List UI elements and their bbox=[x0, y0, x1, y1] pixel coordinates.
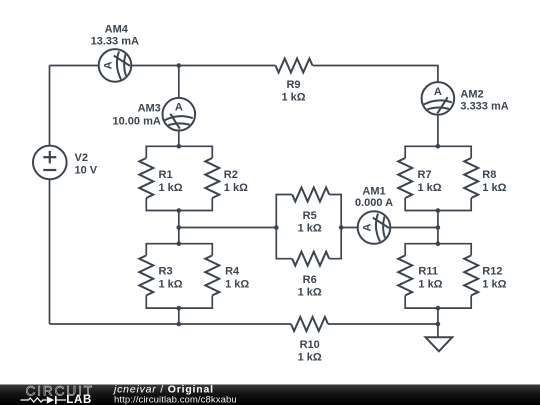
resistor R11 bbox=[398, 255, 412, 295]
resistor R7 bbox=[398, 158, 412, 198]
svg-text:1 kΩ: 1 kΩ bbox=[159, 182, 183, 194]
ammeter AM4 bbox=[99, 49, 132, 82]
svg-text:1 kΩ: 1 kΩ bbox=[298, 351, 322, 363]
wire R1R2 top rail bbox=[146, 146, 212, 158]
svg-text:R2: R2 bbox=[224, 169, 238, 181]
junction node bottom wire right bbox=[436, 322, 441, 327]
wire mid right to AM1 and right rail bbox=[341, 227, 438, 229]
svg-text:1 kΩ: 1 kΩ bbox=[482, 182, 506, 194]
junction node R5R6 left bbox=[274, 225, 279, 230]
svg-text:0.000 A: 0.000 A bbox=[355, 197, 393, 209]
svg-text:R11: R11 bbox=[418, 266, 438, 278]
resistor R10 bbox=[291, 317, 328, 331]
svg-text:R9: R9 bbox=[286, 79, 300, 91]
svg-text:A: A bbox=[175, 102, 183, 114]
wire R7R8 top rail bbox=[405, 146, 471, 158]
svg-text:AM4: AM4 bbox=[105, 23, 129, 35]
svg-text:R12: R12 bbox=[482, 266, 502, 278]
wire left link to bottom bbox=[178, 308, 180, 324]
wire top left segment bbox=[50, 65, 276, 67]
svg-text:10.00 mA: 10.00 mA bbox=[112, 116, 160, 128]
svg-text:13.33 mA: 13.33 mA bbox=[91, 36, 139, 48]
wire center link R1R2 to R3R4 bbox=[178, 211, 180, 244]
ground bbox=[426, 337, 453, 351]
junction node R7R8 top bbox=[436, 144, 441, 149]
svg-text:R5: R5 bbox=[303, 210, 317, 222]
junction node R3R4 bottom bbox=[177, 306, 182, 311]
svg-text:A: A bbox=[434, 86, 442, 98]
svg-text:AM1: AM1 bbox=[362, 185, 385, 197]
svg-text:R8: R8 bbox=[482, 169, 496, 181]
svg-text:V2: V2 bbox=[75, 152, 88, 164]
junction node mid wire right bbox=[436, 225, 441, 230]
wire R5R6 right edge bbox=[329, 195, 341, 259]
resistor R2 bbox=[205, 158, 219, 198]
wire top right segment bbox=[313, 66, 438, 147]
junction node mid wire left bbox=[177, 225, 182, 230]
junction node R1R2 top bbox=[177, 144, 182, 149]
wire AM3 branch bbox=[178, 66, 180, 147]
svg-text:R10: R10 bbox=[300, 339, 320, 351]
resistor R12 bbox=[464, 255, 478, 295]
resistor R8 bbox=[464, 158, 478, 198]
svg-text:AM2: AM2 bbox=[460, 89, 483, 101]
wire R3R4 bottom rail bbox=[146, 295, 212, 308]
svg-text:http://circuitlab.com/c8kxabu: http://circuitlab.com/c8kxabu bbox=[114, 394, 237, 405]
ammeter AM1 bbox=[358, 211, 391, 244]
wire right link R7R8 to R11R12 bbox=[437, 211, 439, 244]
wire R7R8 bottom rail bbox=[405, 198, 471, 211]
wire right link to ground bbox=[437, 308, 439, 337]
svg-text:AM3: AM3 bbox=[138, 102, 161, 114]
junction node R3R4 top bbox=[177, 241, 182, 246]
svg-text:1 kΩ: 1 kΩ bbox=[482, 279, 506, 291]
resistor R9 bbox=[276, 59, 313, 73]
svg-text:1 kΩ: 1 kΩ bbox=[225, 279, 249, 291]
svg-text:1 kΩ: 1 kΩ bbox=[281, 92, 305, 104]
wire R5R6 left edge bbox=[276, 195, 292, 259]
ammeter AM2 bbox=[422, 82, 455, 115]
junction node R1R2 bottom bbox=[177, 208, 182, 213]
svg-text:A: A bbox=[103, 61, 115, 69]
junction node R7R8 bottom bbox=[436, 208, 441, 213]
svg-text:1 kΩ: 1 kΩ bbox=[418, 279, 442, 291]
svg-text:R7: R7 bbox=[418, 169, 432, 181]
wire bottom right segment bbox=[328, 323, 438, 325]
svg-text:1 kΩ: 1 kΩ bbox=[418, 182, 442, 194]
wire R11R12 bottom rail bbox=[405, 295, 471, 308]
footer bar bbox=[0, 383, 540, 405]
svg-text:LAB: LAB bbox=[66, 394, 92, 405]
wire bottom left segment bbox=[50, 323, 292, 325]
wire left rail bbox=[49, 66, 51, 325]
svg-text:R3: R3 bbox=[159, 266, 173, 278]
svg-text:1 kΩ: 1 kΩ bbox=[298, 222, 322, 234]
wire R1R2 bottom rail bbox=[146, 198, 212, 211]
svg-text:1 kΩ: 1 kΩ bbox=[224, 182, 248, 194]
wire R3R4 top rail bbox=[146, 244, 212, 256]
resistor R5 bbox=[292, 188, 329, 202]
svg-text:A: A bbox=[362, 223, 374, 231]
svg-text:R1: R1 bbox=[159, 169, 173, 181]
CircuitLab logo diode symbol bbox=[47, 396, 54, 403]
junction node R11R12 top bbox=[436, 241, 441, 246]
CircuitLab logo resistor squiggle bbox=[21, 398, 47, 402]
ammeter AM3 bbox=[163, 98, 196, 131]
wire mid left bbox=[179, 227, 276, 229]
svg-text:1 kΩ: 1 kΩ bbox=[298, 287, 322, 299]
wire R11R12 top rail bbox=[405, 244, 471, 256]
resistor R1 bbox=[139, 158, 153, 198]
svg-text:3.333 mA: 3.333 mA bbox=[460, 100, 508, 112]
resistor R6 bbox=[292, 252, 329, 266]
svg-text:10 V: 10 V bbox=[75, 164, 98, 176]
junction node bottom wire left bbox=[177, 322, 182, 327]
voltage source V2 bbox=[33, 146, 67, 180]
junction node at top wire / AM3 branch bbox=[177, 63, 182, 68]
svg-text:1 kΩ: 1 kΩ bbox=[159, 279, 183, 291]
junction node R5R6 right bbox=[339, 225, 344, 230]
svg-text:R4: R4 bbox=[225, 266, 240, 278]
resistor R3 bbox=[139, 255, 153, 295]
resistor R4 bbox=[205, 255, 219, 295]
svg-text:R6: R6 bbox=[303, 274, 317, 286]
junction node R11R12 bottom bbox=[436, 306, 441, 311]
